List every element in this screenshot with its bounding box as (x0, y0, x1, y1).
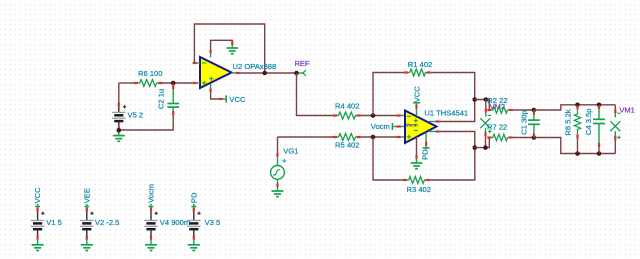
svg-text:VG1: VG1 (283, 146, 298, 155)
svg-text:V1 5: V1 5 (46, 218, 62, 227)
svg-text:U2 OPAx388: U2 OPAx388 (233, 62, 277, 71)
svg-text:R4 402: R4 402 (335, 102, 360, 111)
svg-text:R7 22: R7 22 (487, 123, 507, 132)
svg-text:PD: PD (189, 192, 198, 203)
svg-text:Vocm: Vocm (147, 184, 156, 203)
svg-text:R5 402: R5 402 (335, 141, 360, 150)
svg-text:VCC: VCC (33, 187, 42, 204)
svg-text:VCC: VCC (229, 95, 246, 104)
svg-text:U1 THS4541: U1 THS4541 (424, 109, 468, 118)
svg-text:R2 22: R2 22 (487, 96, 507, 105)
svg-text:R1 402: R1 402 (408, 60, 433, 69)
svg-text:V5 2: V5 2 (128, 111, 144, 120)
svg-text:Vocm: Vocm (406, 122, 418, 127)
svg-text:V4 900m: V4 900m (160, 218, 190, 227)
svg-text:C2 1u: C2 1u (156, 89, 165, 109)
svg-text:V3 5: V3 5 (205, 218, 221, 227)
svg-text:PD: PD (421, 149, 430, 160)
svg-text:VCC: VCC (413, 86, 422, 103)
svg-text:R6 100: R6 100 (138, 69, 163, 78)
svg-text:VEE: VEE (82, 188, 91, 203)
svg-text:R3 402: R3 402 (407, 185, 432, 194)
svg-text:V2 -2.5: V2 -2.5 (95, 218, 119, 227)
svg-text:Vocm: Vocm (371, 122, 390, 131)
svg-text:VM1: VM1 (619, 106, 634, 115)
svg-text:C4 3.5p: C4 3.5p (584, 108, 593, 135)
svg-text:C1 30p: C1 30p (519, 110, 528, 135)
svg-text:REF: REF (295, 59, 310, 68)
svg-text:R8 5.2k: R8 5.2k (563, 109, 572, 135)
